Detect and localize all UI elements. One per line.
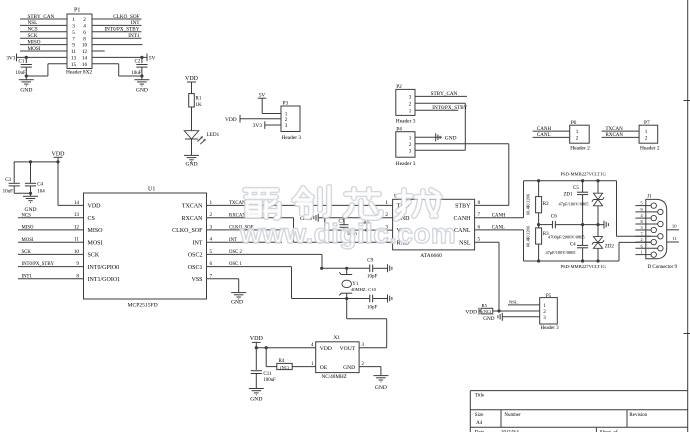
svg-text:GND: GND	[250, 396, 262, 402]
wire CANH rail top	[523, 181, 525, 218]
svg-text:Header 3: Header 3	[282, 135, 302, 141]
svg-text:7: 7	[72, 36, 75, 42]
LED LED1	[184, 131, 199, 139]
svg-text:CANL: CANL	[454, 228, 471, 234]
svg-text:47pF/100V/0805: 47pF/100V/0805	[559, 201, 590, 206]
svg-text:VDD: VDD	[88, 204, 102, 210]
svg-text:ATA6660: ATA6660	[420, 253, 442, 259]
J1 socket pin left 3	[651, 239, 656, 244]
svg-text:OSC 2: OSC 2	[229, 250, 243, 255]
svg-text:2: 2	[285, 117, 288, 123]
capacitor C10 10pF	[369, 295, 371, 303]
connector P3 Header 3	[281, 106, 300, 132]
J1 socket pin left 0	[651, 203, 656, 208]
svg-text:MCP2515FD: MCP2515FD	[128, 302, 158, 308]
resistor R1 1K	[189, 94, 195, 107]
resistor R3 60.4R/1206	[538, 225, 540, 228]
watermark chinese characters	[245, 190, 279, 218]
svg-text:CANL: CANL	[537, 133, 551, 138]
wire U2 CANH pin 7	[475, 217, 524, 219]
svg-text:C9: C9	[367, 258, 373, 263]
svg-text:GND: GND	[231, 299, 243, 305]
svg-text:SCK: SCK	[22, 250, 32, 255]
J1 pin stub 9	[635, 211, 657, 213]
wire 3V3 to P3 pin 3	[265, 124, 281, 126]
svg-text:104: 104	[37, 189, 45, 194]
capacitor C2 10uF	[141, 57, 143, 63]
svg-text:P3: P3	[283, 101, 289, 107]
svg-text:2: 2	[640, 237, 642, 242]
capacitor C1 10uF	[25, 57, 27, 63]
svg-text:P2: P2	[396, 84, 402, 90]
wire U1 pin 13 NCS	[18, 217, 84, 219]
wire P1 pin 10	[92, 44, 143, 46]
wire P2 pin 2 to P4 pin 3	[415, 102, 465, 104]
svg-text:16: 16	[82, 62, 88, 68]
wire J1 pin 10	[667, 229, 679, 231]
svg-text:11: 11	[673, 236, 678, 241]
J1 socket pin right 0	[658, 209, 663, 214]
svg-text:C6: C6	[551, 214, 557, 220]
title block frame	[470, 390, 687, 392]
svg-text:A4: A4	[476, 421, 483, 426]
J1 socket pin right 3	[658, 246, 663, 251]
capacitor C11 100nF	[255, 348, 257, 370]
wire RXCAN to P7 pin 2	[602, 136, 640, 138]
svg-text:(NC): (NC)	[482, 309, 491, 314]
capacitor C3 10uF	[13, 162, 15, 183]
wire C3 C4 to ground	[14, 192, 30, 194]
svg-text:VDD: VDD	[225, 117, 237, 123]
wire LED1 to ground	[191, 139, 193, 155]
J1 pin stub 7	[635, 235, 657, 237]
svg-text:1: 1	[640, 250, 642, 255]
wire P1 pin 5 NCS	[20, 31, 67, 33]
svg-text:12: 12	[82, 49, 88, 55]
capacitor C4 4700pF	[582, 225, 584, 246]
svg-text:P7: P7	[644, 120, 650, 126]
svg-text:2: 2	[576, 136, 579, 142]
svg-text:Number: Number	[504, 413, 521, 418]
wire U1 pin 8 INT1	[18, 278, 84, 280]
svg-text:MISO: MISO	[28, 39, 41, 45]
svg-text:INT0/PX_STBY: INT0/PX_STBY	[22, 262, 55, 267]
wire VDD to U1 pin 14	[57, 162, 59, 206]
svg-text:CS: CS	[88, 216, 95, 222]
svg-text:TXCAN: TXCAN	[229, 201, 246, 206]
svg-text:Revision: Revision	[629, 413, 647, 418]
wire CANL to P6 pin 2	[533, 136, 570, 138]
svg-text:47pF/100V/0805: 47pF/100V/0805	[546, 250, 577, 255]
svg-text:P1: P1	[74, 8, 80, 14]
svg-text:P4: P4	[396, 126, 402, 132]
svg-text:VDD: VDD	[465, 310, 477, 316]
svg-text:CLKO_SOF: CLKO_SOF	[113, 14, 139, 20]
svg-text:R4: R4	[279, 359, 285, 364]
wire P1 pin 1 STBY_CAN	[20, 18, 67, 20]
oscillator X1 body	[316, 342, 359, 373]
wire P1 pin 3 NSL	[20, 24, 67, 26]
TVS diode ZD2 PSD-MMB227VCLT1G	[597, 225, 599, 237]
svg-text:TXCAN: TXCAN	[606, 127, 624, 132]
connector P4 Header 3	[396, 132, 415, 158]
svg-text:PSD-MMB227VCLT1G: PSD-MMB227VCLT1G	[561, 172, 607, 177]
J1 pin stub 6	[635, 247, 657, 249]
resistor R5 NC	[481, 308, 493, 314]
svg-text:ZD1: ZD1	[564, 192, 574, 197]
svg-text:1: 1	[409, 135, 412, 141]
svg-text:R5: R5	[482, 303, 488, 308]
wire P1 pin 4 INT	[92, 24, 142, 26]
svg-text:3: 3	[285, 123, 288, 129]
svg-text:CANL: CANL	[492, 226, 505, 231]
wire crystal top node	[322, 267, 370, 269]
sideways ground right of C10	[387, 295, 389, 303]
svg-text:C4: C4	[570, 242, 576, 247]
wire U1 VSS pin 7 to ground	[207, 278, 239, 280]
svg-text:Header 3: Header 3	[396, 119, 416, 125]
wire U2 CANL pin 6	[475, 229, 524, 231]
svg-text:NC/40MHZ: NC/40MHZ	[322, 374, 347, 380]
svg-text:11: 11	[71, 49, 76, 55]
TVS diode ZD1 PSD-MMB227VCLT1G	[597, 181, 599, 194]
wire J1 pin 11	[667, 241, 679, 243]
capacitor C5 47pF/100V/0805	[582, 181, 584, 193]
svg-text:VSS: VSS	[191, 277, 202, 283]
ground below U1 VSS	[231, 292, 246, 294]
J1 socket pin right 1	[658, 221, 663, 226]
svg-text:3V3: 3V3	[6, 55, 16, 61]
svg-text:NSL: NSL	[459, 240, 471, 246]
svg-text:VDD: VDD	[185, 76, 199, 82]
svg-text:INT0/PX_STBY: INT0/PX_STBY	[432, 105, 467, 111]
wire 3V3 to P1 pin 13	[17, 56, 68, 58]
svg-text:1: 1	[409, 108, 412, 114]
capacitor C4 104	[30, 162, 32, 183]
sheet border right	[687, 0, 689, 432]
svg-text:CANH: CANH	[537, 127, 552, 132]
wire P2 pin 3 STBY_CAN	[415, 95, 467, 97]
svg-text:3: 3	[72, 24, 75, 30]
sheet border tick lower	[684, 333, 690, 335]
ground below X1	[373, 375, 388, 377]
svg-text:Header 3: Header 3	[396, 161, 416, 167]
wire VDD to X1 VDD	[256, 347, 315, 349]
svg-text:R2: R2	[543, 202, 549, 207]
ground below C1	[19, 79, 34, 81]
svg-text:VDD: VDD	[320, 346, 332, 352]
svg-text:1: 1	[385, 200, 388, 206]
svg-text:5: 5	[640, 201, 642, 206]
svg-text:INT0/GPIO0: INT0/GPIO0	[88, 265, 120, 271]
svg-text:1: 1	[72, 17, 75, 23]
op-amp U1 MCP2515FD body	[84, 193, 207, 299]
svg-text:NSL: NSL	[509, 299, 518, 304]
svg-text:SCK: SCK	[28, 33, 38, 39]
svg-text:60.4R/1206: 60.4R/1206	[526, 193, 531, 215]
svg-text:3: 3	[409, 148, 412, 154]
wire R5 to P5 pin 2	[493, 310, 540, 312]
svg-text:VDD: VDD	[250, 336, 264, 342]
wire U1 pin 12 MISO	[18, 229, 84, 231]
svg-text:U1: U1	[148, 186, 155, 192]
svg-text:NSL: NSL	[28, 20, 38, 26]
wire INT U1 pin 4	[207, 241, 283, 243]
svg-text:1K: 1K	[196, 103, 203, 108]
svg-text:D Connector 9: D Connector 9	[648, 265, 678, 270]
wire P1 pin 2 CLKO_SOF	[92, 18, 142, 20]
svg-text:NCS: NCS	[22, 213, 32, 218]
svg-text:X1: X1	[334, 335, 341, 341]
svg-text:LED1: LED1	[207, 132, 220, 138]
wire P1 pin 11 MOSI	[20, 50, 67, 52]
wire P1 pin 16 to C2 ground	[92, 63, 119, 65]
wire P4 pin 1 to ground	[415, 136, 442, 138]
J1 socket pin left 4	[651, 252, 656, 257]
svg-text:Header 8X2: Header 8X2	[66, 70, 92, 76]
J1 pin stub 1	[635, 254, 651, 256]
svg-text:STBY_CAN: STBY_CAN	[28, 14, 55, 20]
svg-text:(NC): (NC)	[280, 365, 290, 370]
svg-text:3: 3	[640, 225, 642, 230]
svg-text:C10: C10	[368, 287, 376, 292]
sideways ground at P4 pin 1	[435, 133, 437, 141]
wire CLKO_SOF U1 pin 3	[207, 229, 283, 231]
ground below C3 C4	[23, 195, 38, 197]
capacitor C7 100n	[343, 218, 345, 225]
svg-text:15: 15	[71, 62, 77, 68]
svg-text:C3: C3	[5, 178, 11, 183]
svg-text:INT: INT	[131, 20, 140, 26]
wire TXCAN to P7 pin 1	[602, 130, 640, 132]
wire P1 pin 15 to C1 ground	[48, 63, 67, 65]
svg-text:9: 9	[72, 43, 75, 49]
sideways ground middle row	[603, 221, 605, 229]
svg-text:GND: GND	[375, 385, 387, 391]
ground below C11	[249, 388, 264, 390]
wire GND to U2 pin 2	[319, 217, 393, 219]
wire P1 pin 7 SCK	[20, 37, 67, 39]
wire crystal bottom to X1 VOUT	[346, 299, 348, 319]
svg-text:CANH: CANH	[492, 213, 506, 218]
crystal Y1 40MHZ	[346, 268, 348, 274]
svg-text:10pF: 10pF	[367, 305, 378, 310]
wire VDD rail	[14, 161, 58, 163]
J1 pin stub 4	[635, 217, 651, 219]
svg-text:5V: 5V	[149, 55, 156, 61]
wire P2 pin 1 INT0/PX_STBY	[415, 109, 458, 111]
wire P5 pin 3 to ground	[502, 316, 539, 318]
svg-text:5V: 5V	[259, 92, 266, 98]
svg-text:RXCAN: RXCAN	[606, 133, 624, 138]
connector P1 Header 8X2	[67, 14, 92, 69]
svg-text:4700pF/2000V/0805: 4700pF/2000V/0805	[548, 234, 585, 239]
wire NSL to P5 pin 1	[508, 304, 540, 306]
wire VDD to R5	[479, 310, 481, 312]
wire CANL rail bottom	[523, 230, 525, 261]
svg-text:STBY_CAN: STBY_CAN	[431, 91, 458, 97]
svg-text:GND: GND	[185, 162, 197, 168]
svg-text:13: 13	[71, 56, 77, 62]
resistor R2 60.4R/1206	[538, 181, 540, 197]
J1 socket pin right 2	[658, 234, 663, 239]
capacitor C6	[551, 221, 553, 229]
svg-text:10uF: 10uF	[3, 189, 14, 194]
svg-text:2: 2	[409, 142, 412, 148]
J1 socket pin left 1	[651, 215, 656, 220]
svg-text:3V3: 3V3	[253, 123, 263, 129]
svg-text:NCS: NCS	[28, 27, 38, 33]
op-amp U2 ATA6660 body	[393, 199, 475, 250]
svg-text:10pF: 10pF	[367, 275, 378, 280]
svg-text:MOSI: MOSI	[22, 238, 34, 243]
wire CANH to P6 pin 1	[533, 130, 570, 132]
wire RXCAN U1 pin 2 to U2 RXD	[207, 217, 294, 219]
svg-text:100nF: 100nF	[263, 378, 276, 383]
svg-text:MOSI: MOSI	[88, 240, 103, 246]
J1 pin stub 2	[635, 241, 651, 243]
svg-text:SCK: SCK	[88, 253, 100, 259]
svg-text:2: 2	[409, 101, 412, 107]
svg-text:4: 4	[83, 24, 86, 30]
svg-text:C2: C2	[135, 59, 141, 64]
svg-text:Title: Title	[475, 393, 485, 398]
wire C6 to ground	[555, 224, 603, 226]
svg-text:RXCAN: RXCAN	[181, 216, 203, 222]
svg-text:8: 8	[640, 219, 642, 224]
wire P4 pin 2 to U2 STBY	[415, 143, 509, 145]
svg-text:6: 6	[83, 30, 86, 36]
svg-text:7: 7	[640, 231, 642, 236]
sideways ground at P5 pin 3	[497, 315, 499, 318]
wire OSC1 U1 pin 6 to crystal	[207, 266, 292, 268]
svg-text:40MHZ: 40MHZ	[351, 287, 366, 292]
svg-text:14: 14	[82, 56, 88, 62]
wire P1 pin 8 INT1	[92, 37, 142, 39]
svg-text:GND: GND	[445, 136, 457, 142]
wire CANL to J1 pin 2	[618, 242, 620, 261]
svg-text:Header 2: Header 2	[570, 145, 590, 151]
svg-text:INT0/PX_STBY: INT0/PX_STBY	[104, 27, 139, 33]
svg-text:GND: GND	[24, 207, 36, 213]
wire U1 pin 9 INT0/PX_STBY	[18, 266, 84, 268]
svg-text:10uF: 10uF	[16, 71, 27, 76]
svg-text:www.digilc.com: www.digilc.com	[239, 218, 456, 249]
wire GND branch down to VCC row	[324, 218, 326, 230]
svg-text:Header 2: Header 2	[640, 145, 660, 151]
svg-text:INT1: INT1	[128, 33, 140, 39]
svg-text:OSC1: OSC1	[188, 265, 203, 271]
wire X1 GND to ground	[359, 366, 381, 368]
svg-text:C4: C4	[37, 183, 43, 188]
svg-text:GND: GND	[343, 365, 355, 371]
J1 pin stub 5	[635, 205, 651, 207]
svg-text:INT: INT	[193, 240, 203, 246]
wire U1 pin 10 SCK	[18, 253, 84, 255]
svg-text:ZD2: ZD2	[605, 245, 615, 250]
connector P2 Header 3	[396, 89, 415, 115]
svg-text:GND: GND	[136, 88, 148, 94]
svg-text:MISO: MISO	[22, 226, 35, 231]
wire P1 pin 14 to 5V	[92, 56, 147, 58]
svg-text:INT1: INT1	[22, 274, 33, 279]
sideways ground right of C9	[387, 264, 389, 272]
wire split termination middle row	[539, 224, 553, 226]
wire VDD to P3 pin 2	[240, 118, 281, 120]
capacitor C9 10pF	[369, 265, 371, 273]
svg-text:VDD: VDD	[52, 151, 66, 157]
svg-text:J1: J1	[647, 195, 652, 200]
svg-text:P5: P5	[546, 294, 552, 299]
svg-text:PSD-MMB227VCLT1G: PSD-MMB227VCLT1G	[561, 264, 607, 269]
svg-text:R1: R1	[196, 97, 202, 102]
resistor R4 NC branch to OE	[265, 348, 267, 367]
svg-text:2: 2	[83, 17, 86, 23]
wire X1 VOUT stub	[359, 347, 387, 349]
connector P5 Header 3	[540, 298, 558, 324]
svg-text:3: 3	[409, 95, 412, 101]
wire CANH to J1 pin 7	[616, 181, 618, 237]
svg-text:OSC2: OSC2	[188, 253, 203, 259]
svg-text:MOSI: MOSI	[28, 46, 41, 52]
svg-text:6: 6	[640, 243, 642, 248]
J1 pin stub 3	[635, 229, 651, 231]
svg-text:CLKO_SOF: CLKO_SOF	[172, 228, 203, 234]
wire TXCAN U1 pin 1 to U2 TXD	[207, 204, 393, 206]
svg-text:INT1/GOIO1: INT1/GOIO1	[88, 277, 121, 283]
svg-text:8: 8	[83, 36, 86, 42]
svg-text:14: 14	[74, 200, 80, 206]
connector J1 D Connector 9 body	[646, 199, 667, 258]
wire U1 pin 11 MOSI	[18, 241, 84, 243]
svg-text:TXCAN: TXCAN	[182, 204, 203, 210]
svg-text:VOUT: VOUT	[340, 346, 356, 352]
svg-text:GND: GND	[483, 316, 494, 322]
wire OSC2 U1 pin 5 to crystal	[207, 253, 323, 255]
wire P1 pin 6 INT0/PX_STBY	[92, 31, 142, 33]
wire U2 STBY pin 8	[475, 204, 509, 206]
J1 socket pin left 2	[651, 227, 656, 232]
wire P1 pin 9 MISO	[20, 44, 67, 46]
ground below LED1	[184, 154, 199, 156]
svg-text:5: 5	[72, 30, 75, 36]
svg-text:STBY: STBY	[455, 204, 471, 210]
svg-text:60.4R/1206: 60.4R/1206	[526, 225, 531, 247]
svg-text:C11: C11	[263, 372, 272, 377]
J1 pin stub 8	[635, 223, 657, 225]
sheet border tick upper	[684, 100, 690, 102]
svg-text:P6: P6	[571, 120, 577, 126]
svg-text:INT: INT	[229, 238, 237, 243]
ground below C2	[134, 79, 149, 81]
svg-text:Size: Size	[475, 413, 484, 418]
connector P6 Header 2	[570, 125, 590, 143]
svg-text:C5: C5	[573, 186, 579, 191]
svg-text:10uF: 10uF	[131, 71, 142, 76]
svg-text:9: 9	[640, 207, 642, 212]
svg-text:MISO: MISO	[88, 228, 104, 234]
svg-text:GND: GND	[20, 88, 32, 94]
svg-text:OSC 1: OSC 1	[229, 262, 243, 267]
wire R1 to LED1	[191, 107, 193, 131]
svg-text:1: 1	[576, 129, 579, 135]
svg-text:10: 10	[672, 224, 677, 229]
svg-text:C1: C1	[19, 59, 25, 64]
svg-text:Header 3: Header 3	[541, 326, 560, 331]
svg-text:1: 1	[645, 129, 648, 135]
svg-text:10: 10	[82, 43, 88, 49]
wire U2 NSL pin 5 down to P5	[475, 241, 499, 243]
